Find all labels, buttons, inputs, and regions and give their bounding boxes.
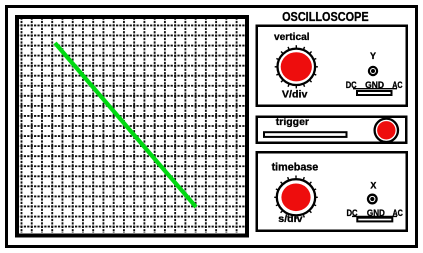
svg-text:X: X [370,181,376,191]
svg-text:Y: Y [370,51,376,61]
knob s/div ticks [274,176,318,220]
trigger panel box [257,117,407,143]
svg-text:trigger: trigger [276,117,309,128]
svg-text:AC: AC [392,80,402,91]
timebase coupling track line [352,215,397,217]
svg-text:DC: DC [346,208,357,219]
timebase panel box [257,152,407,231]
X input jack [368,195,377,204]
svg-text:GND: GND [365,80,384,91]
knob s/div red cap [281,184,310,212]
knob V/div red cap [281,52,312,81]
vertical panel box [257,26,407,106]
timebase coupling switch handle [357,218,392,222]
screen bezel [17,17,247,236]
knob s/div ring [277,179,315,215]
knob V/div ring [278,49,316,85]
vertical coupling switch handle [357,91,392,95]
svg-text:AC: AC [392,208,403,219]
svg-text:s/div: s/div [278,214,302,225]
screen graticule grid [22,19,237,233]
trigger level slider [264,132,347,137]
trigger knob red cap [377,121,395,139]
svg-text:vertical: vertical [274,32,310,43]
svg-text:timebase: timebase [272,162,319,174]
trigger knob ring [375,119,398,142]
svg-text:V/div: V/div [282,89,308,100]
Y input jack [369,67,377,75]
trace (green line) [55,43,196,207]
knob V/div ticks [275,45,318,88]
svg-text:OSCILLOSCOPE: OSCILLOSCOPE [282,9,369,24]
svg-text:DC: DC [346,80,357,91]
vertical coupling track line [353,88,397,90]
